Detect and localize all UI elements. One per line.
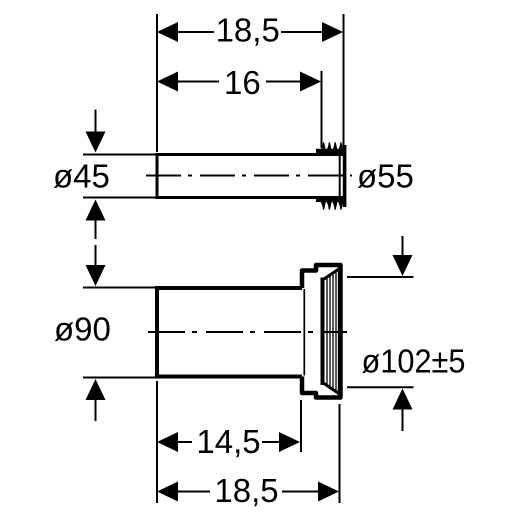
svg-text:ø45: ø45 bbox=[53, 157, 110, 194]
dimension 18,5 top: dimension line + arrows bbox=[157, 22, 343, 42]
dimension ø45: label bbox=[53, 157, 110, 194]
dimension ø90: label bbox=[54, 311, 111, 348]
svg-text:ø55: ø55 bbox=[357, 157, 414, 194]
dimension 18,5 bottom: extension line right bbox=[339, 404, 341, 503]
svg-text:ø102±5: ø102±5 bbox=[362, 342, 466, 379]
upper pipe ribbed seal band bottom bbox=[316, 196, 344, 202]
svg-text:14,5: 14,5 bbox=[196, 423, 260, 460]
svg-text:16: 16 bbox=[224, 64, 261, 101]
dimension ø102: extension line bottom bbox=[347, 386, 414, 388]
dimension ø90: extension line top bbox=[83, 287, 156, 289]
dimension 18,5 top: extension line left bbox=[156, 14, 158, 152]
upper pipe inner end wall bbox=[339, 156, 341, 196]
dimension ø102: bottom arrow bbox=[393, 389, 413, 432]
dimension ø90: top arrow bbox=[86, 245, 106, 286]
socket bore back wall bbox=[303, 289, 305, 376]
dimension ø102: top arrow bbox=[393, 236, 413, 276]
dimension ø102: extension line top bbox=[347, 276, 414, 278]
dimension ø45: bottom arrow bbox=[86, 200, 106, 240]
upper pipe body outline bbox=[157, 155, 344, 198]
dimension 18,5 bottom: dimension line + arrows bbox=[157, 482, 339, 502]
dimension 14,5: extension line right bbox=[300, 400, 302, 452]
dimension ø45: top arrow bbox=[86, 110, 106, 153]
dimension 16: extension line right bbox=[321, 71, 323, 148]
dimension 14,5: extension line left bbox=[156, 381, 158, 503]
dimension ø90: extension line bottom bbox=[83, 377, 156, 379]
lower pipe flange outline bbox=[302, 265, 341, 398]
dimension 18,5 top: label bbox=[216, 12, 280, 49]
lower pipe centerline bbox=[148, 331, 347, 333]
svg-text:ø90: ø90 bbox=[54, 311, 111, 348]
lower pipe body outline bbox=[157, 288, 302, 377]
upper pipe ribbed seal band top bbox=[316, 149, 344, 155]
dimension 14,5: label bbox=[196, 423, 260, 460]
dimension 16: label bbox=[224, 64, 261, 101]
dimension ø102: label bbox=[362, 342, 466, 379]
upper pipe centerline bbox=[146, 175, 352, 177]
dimension ø55: label bbox=[357, 157, 414, 194]
dimension ø45: extension line top bbox=[83, 154, 156, 156]
flange socket bevel top bbox=[324, 269, 340, 280]
flange socket bevel bottom bbox=[324, 384, 340, 395]
dimension 18,5 bottom: label bbox=[214, 472, 278, 509]
dimension 14,5: dimension line + arrows bbox=[157, 432, 300, 452]
dimension 16: dimension line + arrows bbox=[157, 72, 321, 92]
flange socket ribs bbox=[327, 270, 339, 395]
dimension ø90: bottom arrow bbox=[86, 379, 106, 421]
svg-text:18,5: 18,5 bbox=[216, 12, 280, 49]
upper pipe end cap bbox=[343, 145, 347, 207]
svg-text:18,5: 18,5 bbox=[214, 472, 278, 509]
upper seal teeth bottom bbox=[321, 202, 343, 210]
upper seal teeth top bbox=[321, 142, 343, 150]
dimension 18,5 top: extension line right bbox=[343, 14, 345, 147]
dimension ø45: extension line bottom bbox=[83, 197, 156, 199]
flange socket inner wall bbox=[321, 278, 325, 386]
